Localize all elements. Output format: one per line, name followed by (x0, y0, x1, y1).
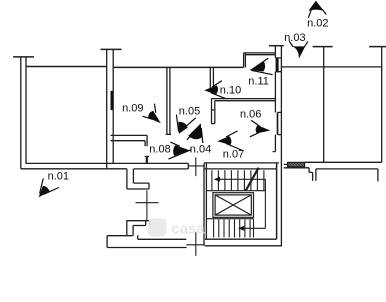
svg-text:n.01: n.01 (48, 170, 69, 182)
arrow n.01 (40, 178, 59, 194)
svg-text:n.02: n.02 (307, 18, 328, 30)
threshold entry door (186, 244, 205, 246)
wall n.10 divider (double, capped) (209, 67, 214, 89)
door cross 1 (195, 157, 197, 176)
wall left-room left (double) (21, 57, 26, 169)
right terrace top (281, 66, 381, 68)
wall cap top-middle (101, 48, 122, 50)
step-down parapet (127, 169, 149, 189)
corridor bottom wall (133, 163, 188, 169)
balcony bottom right (309, 168, 378, 182)
door cross 2 (136, 190, 159, 220)
arrow n.09 (142, 104, 155, 120)
watermark casa.it (148, 219, 205, 238)
svg-text:n.05: n.05 (179, 106, 200, 118)
elevator (213, 193, 254, 218)
wall n.09 bottom (double with hook) (111, 135, 148, 146)
arrow n.10 (211, 81, 226, 99)
arrow n.08 (169, 142, 192, 159)
wall left-room bottom outer (21, 168, 127, 170)
svg-text:n.04: n.04 (190, 144, 211, 156)
window box right wall (277, 112, 279, 134)
wall left-room right (double) (107, 49, 114, 168)
right terrace verticals (324, 47, 382, 163)
stair treads upper flight (212, 170, 264, 191)
staircase bottom wall (double) (205, 239, 282, 246)
door ticks right wall (275, 58, 281, 72)
staircase top wall (double) (204, 163, 279, 169)
arrow n.07 (226, 131, 243, 151)
stair break line (246, 168, 259, 191)
door box in n.06 left wall (212, 99, 215, 124)
threshold staircase door (188, 165, 205, 167)
svg-text:n.09: n.09 (122, 102, 143, 114)
svg-text:n.06: n.06 (240, 109, 261, 121)
under elevator edge (206, 218, 253, 220)
walk arrows (214, 177, 220, 182)
arrow n.05 (176, 115, 195, 132)
staircase right inner wall (276, 163, 278, 239)
right terrace bottom (305, 161, 382, 163)
labels and pointer arrows (48, 18, 329, 183)
arrow n.04 (187, 128, 203, 143)
wall top step verticals (244, 53, 246, 68)
svg-text:casa: casa (171, 221, 205, 238)
wall n.06 top (double) (211, 99, 275, 101)
stubs right of staircase (284, 164, 309, 167)
arrow n.02 (308, 10, 326, 18)
landing edge (206, 190, 265, 192)
arrow n.03 (289, 41, 308, 47)
stair treads lower flight (214, 219, 254, 238)
svg-text:n.03: n.03 (284, 32, 305, 44)
svg-text:n.11: n.11 (248, 75, 269, 87)
wall caps right terrace (313, 46, 386, 48)
door jamb dark bar (111, 91, 114, 110)
arrow n.11 (251, 58, 273, 74)
wall stub near n.08 (145, 155, 149, 157)
door cross 3 (195, 232, 197, 256)
svg-text:n.08: n.08 (149, 144, 170, 156)
wall middle top (113, 66, 243, 68)
wall cap top-left (13, 56, 34, 58)
wall left-room top (26, 66, 107, 68)
wall cap above right wall (269, 45, 284, 47)
hatch box (286, 162, 306, 167)
staircase left wall (double) (204, 163, 206, 246)
wall n.09 right divider (double, capped) (166, 67, 171, 134)
wall left-room bottom inner / corridor top (26, 162, 188, 164)
walk line (216, 179, 266, 228)
wall top step horizontals (double) (244, 53, 276, 55)
wall right big vertical (double with openings) (275, 46, 281, 246)
arrow n.06 (250, 120, 260, 137)
terrace parapet (107, 221, 187, 248)
door jamb dark bar right wall (276, 58, 279, 72)
svg-text:n.10: n.10 (220, 85, 241, 97)
